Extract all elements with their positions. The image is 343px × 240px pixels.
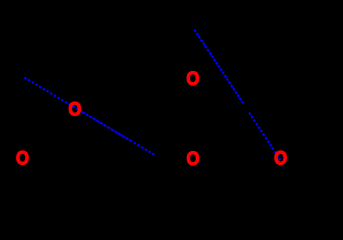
- svg-text:O: O: [274, 148, 287, 169]
- oxygen atom O1: [68, 98, 81, 119]
- svg-text:O: O: [187, 148, 200, 169]
- svg-text:O: O: [16, 148, 29, 169]
- bond C1-O1 (hashed stereo bond, blue): [24, 78, 83, 113]
- oxygen atom O2: [16, 148, 29, 169]
- oxygen atom O5: [274, 148, 287, 169]
- oxygen atom O4: [187, 148, 200, 169]
- svg-text:O: O: [186, 68, 199, 89]
- bond C2-C3 (dashed part, blue): [130, 140, 155, 155]
- bond O1-C2 (solid part, blue): [82, 112, 130, 141]
- svg-text:O: O: [68, 98, 81, 119]
- bond C4-C5 (hashed stereo bond upper, blue): [194, 30, 243, 104]
- bond C5-O5 (hashed stereo bond lower, blue): [249, 113, 280, 161]
- oxygen atom O3: [186, 68, 199, 89]
